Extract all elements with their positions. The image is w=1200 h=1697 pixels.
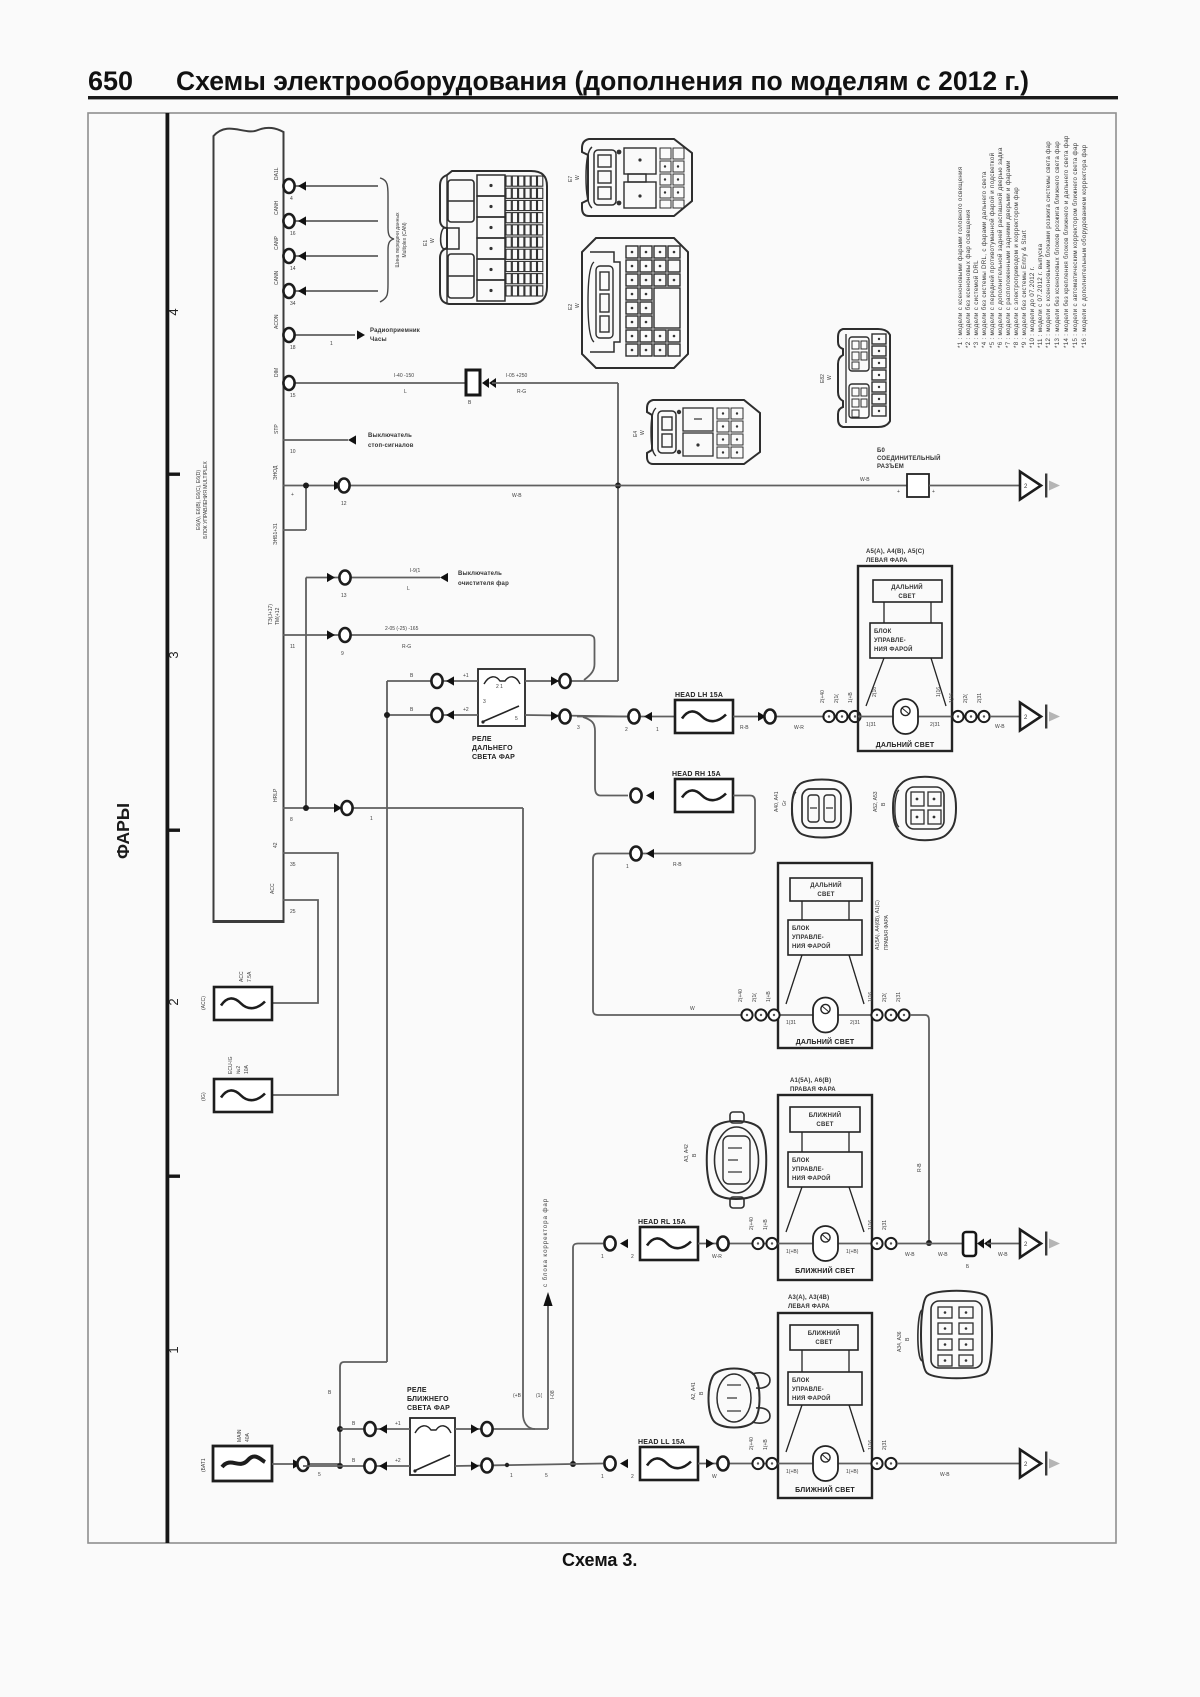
svg-text:*12 : модели с ксеноновыми бло: *12 : модели с ксеноновыми блоками розжи… xyxy=(1045,141,1052,348)
wire xyxy=(283,255,378,257)
connector xyxy=(364,1459,375,1473)
svg-text:HEAD LH 15A: HEAD LH 15A xyxy=(675,692,723,699)
svg-text:1(16: 1(16 xyxy=(949,693,955,703)
svg-text:УПРАВЛЕ-: УПРАВЛЕ- xyxy=(792,1387,824,1393)
svg-text:2: 2 xyxy=(631,1474,634,1480)
svg-text:7.5A: 7.5A xyxy=(247,971,253,982)
svg-text:CANN: CANN xyxy=(274,270,280,285)
junction xyxy=(615,483,621,489)
svg-text:Часы: Часы xyxy=(370,337,387,343)
svg-text:СВЕТ: СВЕТ xyxy=(898,594,915,600)
wire xyxy=(455,1464,572,1466)
wire xyxy=(283,485,907,487)
connector B xyxy=(466,370,480,395)
svg-text:(+B: (+B xyxy=(513,1393,522,1399)
svg-text:W: W xyxy=(430,238,436,243)
svg-text:БЛИЖНИЙ: БЛИЖНИЙ xyxy=(808,1329,840,1337)
connector xyxy=(364,1422,375,1436)
svg-text:А3(А), А3(4В): А3(А), А3(4В) xyxy=(788,1295,829,1301)
svg-text:2: 2 xyxy=(166,998,181,1005)
wire xyxy=(272,853,338,1095)
wire xyxy=(306,577,440,579)
page header xyxy=(88,66,1118,99)
connector xyxy=(898,1009,909,1020)
svg-text:ФАРЫ: ФАРЫ xyxy=(113,803,133,859)
svg-text:9: 9 xyxy=(341,651,344,657)
svg-text:1: 1 xyxy=(370,816,373,822)
connector arrow xyxy=(334,481,342,490)
control unit block (БЛОК УПРАВЛЕНИЯ MULTIPLEX) xyxy=(196,128,284,923)
wire xyxy=(380,178,394,302)
wire xyxy=(573,1244,603,1465)
svg-text:БЛОК: БЛОК xyxy=(792,1158,810,1164)
svg-text:R-B: R-B xyxy=(673,862,682,868)
svg-text:HEAD RL 15A: HEAD RL 15A xyxy=(638,1219,686,1226)
svg-text:БЛОК: БЛОК xyxy=(792,926,810,932)
svg-text:5: 5 xyxy=(515,716,518,722)
connector arrow xyxy=(551,711,559,720)
connector arrow xyxy=(471,1424,479,1433)
DIM wire with connector B xyxy=(283,370,621,681)
svg-text:1: 1 xyxy=(601,1474,604,1480)
connector xyxy=(604,1237,615,1251)
svg-text:5: 5 xyxy=(545,1473,548,1479)
connector arrow xyxy=(334,803,342,812)
svg-text:W: W xyxy=(640,430,646,435)
thick section divider xyxy=(166,113,170,1543)
svg-text:ЛЕВАЯ ФАРА: ЛЕВАЯ ФАРА xyxy=(788,1304,830,1310)
svg-text:А34, А36: А34, А36 xyxy=(897,1331,903,1352)
wire xyxy=(577,716,674,718)
svg-text:А40, А41: А40, А41 xyxy=(774,791,780,812)
svg-text:*6 : модели с дополнительной з: *6 : модели с дополнительной задней расп… xyxy=(997,147,1004,348)
svg-text:1(+B): 1(+B) xyxy=(786,1469,799,1475)
svg-text:*13 : модели без ксеноновых бл: *13 : модели без ксеноновых блоков розжи… xyxy=(1054,141,1061,348)
connector E82 xyxy=(820,329,890,427)
connector xyxy=(717,1457,728,1471)
terminal 42 to ECU-IG fuse xyxy=(272,842,338,1095)
svg-text:*4 : модели без системы DRL, с: *4 : модели без системы DRL, с фарами да… xyxy=(981,171,988,348)
wire xyxy=(387,714,478,716)
svg-text:R-G: R-G xyxy=(517,389,526,395)
connector xyxy=(431,708,442,722)
connector xyxy=(755,1009,766,1020)
connector xyxy=(431,674,442,688)
connector xyxy=(766,1238,777,1249)
ECU-IG fuse 10A xyxy=(201,1056,272,1112)
block terminals: CAN group xyxy=(283,186,378,335)
svg-text:*5 : модели с передней противо: *5 : модели с передней противотуманной ф… xyxy=(989,152,996,348)
wire xyxy=(484,677,520,684)
wire xyxy=(305,486,307,531)
svg-text:1(16: 1(16 xyxy=(868,992,874,1002)
svg-text:ПРАВАЯ ФАРА: ПРАВАЯ ФАРА xyxy=(790,1087,836,1093)
wire xyxy=(272,1463,340,1465)
svg-text:СВЕТ: СВЕТ xyxy=(815,1340,832,1346)
wire xyxy=(305,578,307,809)
connector arrow xyxy=(646,791,654,800)
svg-text:Gr: Gr xyxy=(782,800,788,806)
connector xyxy=(978,711,989,722)
svg-text:2-05 (-25) -165: 2-05 (-25) -165 xyxy=(385,626,419,632)
svg-text:1: 1 xyxy=(601,1254,604,1260)
svg-text:W: W xyxy=(712,1474,717,1480)
diagram outer frame xyxy=(88,113,1116,1543)
wire xyxy=(522,808,524,1414)
svg-text:2(31: 2(31 xyxy=(930,722,940,728)
wire xyxy=(283,529,306,531)
svg-text:ЭНОД: ЭНОД xyxy=(273,465,279,480)
svg-text:2(+40: 2(+40 xyxy=(749,1437,755,1450)
svg-text:РЕЛЕ: РЕЛЕ xyxy=(407,1387,427,1394)
connector arrow xyxy=(327,630,335,639)
left headlamp low-beam unit xyxy=(778,1295,872,1498)
svg-text:650: 650 xyxy=(88,66,133,96)
wire xyxy=(984,1239,991,1249)
svg-text:R-G: R-G xyxy=(402,644,411,650)
svg-text:ACC: ACC xyxy=(270,883,276,894)
svg-text:А5(А), А4(В), А5(С): А5(А), А4(В), А5(С) xyxy=(866,549,924,555)
svg-text:HEAD RH 15A: HEAD RH 15A xyxy=(672,771,721,778)
svg-text:2: 2 xyxy=(631,1254,634,1260)
connector xyxy=(283,284,294,298)
connector xyxy=(283,376,294,390)
svg-text:ДАЛЬНИЙ СВЕТ: ДАЛЬНИЙ СВЕТ xyxy=(796,1037,855,1046)
connector E2 xyxy=(568,238,688,368)
connector arrow xyxy=(758,712,766,721)
ground xyxy=(1020,703,1060,731)
svg-text:*10 : модели до 07.2012 г.: *10 : модели до 07.2012 г. xyxy=(1029,266,1036,348)
connector B xyxy=(963,1232,976,1256)
svg-text:(1(: (1( xyxy=(536,1393,542,1399)
connector xyxy=(297,1457,308,1471)
svg-text:Б0: Б0 xyxy=(877,448,886,454)
svg-text:I-40 -150: I-40 -150 xyxy=(394,373,414,379)
wire xyxy=(617,383,619,681)
svg-text:8: 8 xyxy=(290,817,293,823)
wire xyxy=(525,715,627,717)
svg-text:Multiplex (CAN): Multiplex (CAN) xyxy=(402,222,408,257)
svg-text:ACON: ACON xyxy=(274,314,280,329)
svg-text:3: 3 xyxy=(166,651,181,658)
junction xyxy=(303,483,309,489)
wire xyxy=(593,796,755,1016)
svg-text:Е6(А), Е6(В), Е6(С), Е6(D): Е6(А), Е6(В), Е6(С), Е6(D) xyxy=(196,470,202,530)
svg-text:+: + xyxy=(897,489,900,495)
svg-text:СОЕДИНИТЕЛЬНЫЙ: СОЕДИНИТЕЛЬНЫЙ xyxy=(877,454,941,462)
round connector A34 A36 xyxy=(897,1291,992,1379)
wire xyxy=(414,1455,450,1471)
svg-text:10: 10 xyxy=(290,449,296,455)
svg-text:W: W xyxy=(690,1006,695,1012)
ground xyxy=(1020,472,1060,500)
connector xyxy=(283,328,294,342)
svg-text:L: L xyxy=(407,586,410,592)
right high beam connectors and wire down xyxy=(738,989,932,1246)
wire xyxy=(584,635,595,680)
connector xyxy=(339,571,350,585)
svg-text:*7 : модели с расположенными з: *7 : модели с расположенными задними две… xyxy=(1005,160,1012,348)
svg-text:очистителя фар: очистителя фар xyxy=(458,580,509,587)
svg-text:УПРАВЛЕ-: УПРАВЛЕ- xyxy=(874,638,906,644)
svg-text:4: 4 xyxy=(166,308,181,315)
svg-text:W-B: W-B xyxy=(938,1252,948,1258)
connector xyxy=(339,628,350,642)
svg-text:CANP: CANP xyxy=(274,235,280,250)
middle column of 6 cells xyxy=(477,175,505,301)
svg-text:DA1L: DA1L xyxy=(274,167,280,180)
HEAD LH fuse and wire to left headlamp xyxy=(577,690,861,733)
svg-text:2(2(: 2(2( xyxy=(963,694,969,703)
svg-text:1(+B): 1(+B) xyxy=(786,1249,799,1255)
right low beam: to ground xyxy=(868,1220,1060,1270)
svg-text:40A: 40A xyxy=(245,1432,251,1442)
wire xyxy=(525,680,618,682)
junction xyxy=(337,1426,343,1432)
svg-text:W: W xyxy=(575,175,581,180)
ground xyxy=(1020,1450,1060,1478)
svg-text:*11 : модели с 07.2012 г. выпу: *11 : модели с 07.2012 г. выпуска xyxy=(1037,243,1044,348)
section ticks xyxy=(169,473,180,476)
connector xyxy=(849,711,860,722)
connector arrow xyxy=(644,712,652,721)
right headlamp high-beam unit xyxy=(778,863,890,1048)
svg-text:5: 5 xyxy=(318,1472,321,1478)
svg-text:W-B: W-B xyxy=(995,724,1005,730)
svg-text:№2: №2 xyxy=(236,1066,242,1074)
svg-text:18: 18 xyxy=(290,345,296,351)
wire xyxy=(415,1426,451,1433)
svg-text:с блока корректора фар: с блока корректора фар xyxy=(542,1198,549,1287)
connector xyxy=(283,214,294,228)
svg-text:W-B: W-B xyxy=(860,477,870,483)
svg-text:+2: +2 xyxy=(463,707,469,713)
connector arrow xyxy=(293,1459,301,1468)
svg-text:2 1: 2 1 xyxy=(496,684,503,690)
svg-text:УПРАВЛЕ-: УПРАВЛЕ- xyxy=(792,1167,824,1173)
fuse HEAD RL 15A xyxy=(640,1227,698,1260)
svg-text:I-05 +250: I-05 +250 xyxy=(506,373,527,379)
svg-text:W-B: W-B xyxy=(512,493,522,499)
svg-text:А1(5А), А6(В): А1(5А), А6(В) xyxy=(790,1078,831,1084)
svg-text:ПРАВАЯ ФАРА: ПРАВАЯ ФАРА xyxy=(884,915,890,950)
connector arrow xyxy=(551,676,559,685)
svg-text:R-B: R-B xyxy=(740,725,749,731)
connector xyxy=(559,710,570,724)
fuse ECU-IG No2 10A xyxy=(214,1079,272,1112)
svg-text:34: 34 xyxy=(290,301,296,307)
svg-text:10A: 10A xyxy=(244,1064,250,1074)
svg-text:ДАЛЬНИЙ СВЕТ: ДАЛЬНИЙ СВЕТ xyxy=(876,740,935,749)
junction xyxy=(303,805,309,811)
svg-text:2(2(: 2(2( xyxy=(882,993,888,1002)
connector arrow xyxy=(357,330,365,339)
svg-text:HRLP: HRLP xyxy=(273,788,279,802)
connector E4 xyxy=(633,400,760,464)
svg-text:стоп-сигналов: стоп-сигналов xyxy=(368,443,414,449)
relay contact xyxy=(413,1469,416,1472)
STP terminal xyxy=(274,424,414,455)
wire xyxy=(387,680,478,682)
round connector A3 A42 xyxy=(684,1112,766,1208)
svg-text:2(1(: 2(1( xyxy=(752,993,758,1002)
svg-text:А1(5А), А4(6В), А1(С): А1(5А), А4(6В), А1(С) xyxy=(875,900,881,950)
connector arrow xyxy=(706,1459,714,1468)
junction xyxy=(505,1463,509,1467)
connector xyxy=(481,1422,492,1436)
svg-text:*1 : модели с ксеноновыми фара: *1 : модели с ксеноновыми фарами головно… xyxy=(957,167,964,349)
svg-text:*15 : модели с автоматическим: *15 : модели с автоматическим корректоро… xyxy=(1072,142,1079,348)
connector xyxy=(630,789,641,803)
connector xyxy=(766,1458,777,1469)
terminal ACC to ACC fuse xyxy=(270,883,318,1003)
svg-text:+: + xyxy=(932,489,935,495)
svg-text:БЛИЖНЕГО: БЛИЖНЕГО xyxy=(407,1396,449,1403)
fuse HEAD LH 15A xyxy=(675,700,733,733)
svg-text:НИЯ ФАРОЙ: НИЯ ФАРОЙ xyxy=(792,1174,831,1182)
wire xyxy=(283,220,378,222)
connector xyxy=(752,1458,763,1469)
svg-text:2(1(: 2(1( xyxy=(834,694,840,703)
wire xyxy=(990,716,1019,718)
svg-text:L: L xyxy=(404,389,407,395)
svg-text:2(16: 2(16 xyxy=(872,687,878,697)
connector arrow xyxy=(706,1239,714,1248)
ЭНОД wire (W-B to ground) xyxy=(273,448,1060,545)
wire xyxy=(482,706,519,722)
TMI terminal (R-G wire to relay coil) xyxy=(268,604,595,680)
svg-text:2(31: 2(31 xyxy=(850,1020,860,1026)
svg-text:А2, А41: А2, А41 xyxy=(691,1382,697,1400)
connector xyxy=(283,179,294,193)
wire xyxy=(698,1243,778,1245)
svg-text:+1: +1 xyxy=(395,1421,401,1427)
junction xyxy=(337,1463,343,1469)
svg-text:ДАЛЬНИЙ: ДАЛЬНИЙ xyxy=(810,881,842,889)
junction xyxy=(926,1240,932,1246)
svg-text:Радиоприемник: Радиоприемник xyxy=(370,328,420,334)
left headlamp high-beam unit xyxy=(858,549,952,751)
svg-text:1: 1 xyxy=(656,727,659,733)
wire xyxy=(283,185,378,187)
svg-text:DIM: DIM xyxy=(274,368,280,377)
svg-text:35: 35 xyxy=(290,862,296,868)
svg-text:2(31: 2(31 xyxy=(882,1440,888,1450)
connector xyxy=(604,1457,615,1471)
connector arrow xyxy=(620,1239,628,1248)
svg-text:НИЯ ФАРОЙ: НИЯ ФАРОЙ xyxy=(792,1394,831,1402)
svg-text:Схема 3.: Схема 3. xyxy=(562,1550,637,1570)
svg-text:3: 3 xyxy=(577,725,580,731)
svg-text:БЛИЖНИЙ: БЛИЖНИЙ xyxy=(809,1111,841,1119)
svg-text:1: 1 xyxy=(166,1346,181,1353)
svg-text:1(+B: 1(+B xyxy=(763,1439,769,1450)
svg-text:НИЯ ФАРОЙ: НИЯ ФАРОЙ xyxy=(792,942,831,950)
wire xyxy=(283,290,378,292)
fuse MAIN 40A xyxy=(213,1446,272,1481)
svg-text:1(+B): 1(+B) xyxy=(846,1469,859,1475)
svg-text:СВЕТА ФАР: СВЕТА ФАР xyxy=(472,754,515,761)
svg-text:2: 2 xyxy=(625,727,628,733)
relay 2: РЕЛЕ БЛИЖНЕГО СВЕТА ФАР xyxy=(303,1362,572,1479)
svg-text:*9 : модели без системы Entry: *9 : модели без системы Entry & Start xyxy=(1021,230,1028,348)
svg-text:Е82: Е82 xyxy=(820,374,826,383)
connector B0 xyxy=(907,474,929,497)
svg-text:W-B: W-B xyxy=(905,1252,915,1258)
connector xyxy=(481,1459,492,1473)
svg-text:HEAD LL 15A: HEAD LL 15A xyxy=(638,1439,685,1446)
fuse ACC 7.5A xyxy=(214,987,272,1020)
svg-text:*16 : модели с дополнительным: *16 : модели с дополнительным оборудован… xyxy=(1081,144,1088,348)
svg-text:+2: +2 xyxy=(395,1458,401,1464)
connector xyxy=(965,711,976,722)
HRLP vertical joins relay2 coil / corrector branch xyxy=(523,1198,556,1429)
svg-text:ECU-IG: ECU-IG xyxy=(228,1056,234,1074)
svg-text:Е4: Е4 xyxy=(633,431,639,437)
svg-text:*14 : модели без крепления бло: *14 : модели без крепления блоков ближне… xyxy=(1063,135,1070,348)
HEAD RL fuse and right headlamp low-beam wire xyxy=(601,1217,778,1260)
svg-text:А52, А53: А52, А53 xyxy=(873,791,879,812)
J5 (washer switch) terminal xyxy=(306,568,509,808)
svg-text:W: W xyxy=(575,303,581,308)
svg-text:1(+B: 1(+B xyxy=(766,991,772,1002)
round connector A2 A41 xyxy=(691,1369,770,1428)
connector xyxy=(885,1009,896,1020)
svg-text:STP: STP xyxy=(274,424,280,434)
connector xyxy=(871,1458,882,1469)
svg-text:4: 4 xyxy=(290,196,293,202)
wire xyxy=(222,1457,265,1467)
svg-text:I-08: I-08 xyxy=(550,1390,556,1399)
dense right grid xyxy=(506,176,543,296)
svg-text:Шина передачи данных: Шина передачи данных xyxy=(395,212,401,267)
svg-text:2(+40: 2(+40 xyxy=(749,1217,755,1230)
svg-text:Е2: Е2 xyxy=(568,304,574,310)
wire xyxy=(897,1463,1019,1465)
wire xyxy=(910,1015,929,1243)
relay R2 box xyxy=(410,1418,455,1475)
svg-text:ТЭ(J+17): ТЭ(J+17) xyxy=(268,604,274,625)
wire xyxy=(543,1292,552,1306)
HEAD RL fuse feed vertical xyxy=(570,1244,603,1468)
wire xyxy=(547,1300,549,1429)
round connector A40 A41 xyxy=(774,780,851,838)
wire xyxy=(455,1428,548,1430)
svg-text:ACC: ACC xyxy=(239,971,245,982)
connector xyxy=(768,1009,779,1020)
connector xyxy=(630,847,641,861)
svg-text:Е1: Е1 xyxy=(423,240,429,246)
wire xyxy=(340,1362,387,1466)
svg-text:ТМ(+12: ТМ(+12 xyxy=(275,607,281,625)
svg-text:БЛОК УПРАВЛЕНИЯ MULTIPLEX: БЛОК УПРАВЛЕНИЯ MULTIPLEX xyxy=(203,461,209,539)
svg-text:W-B: W-B xyxy=(940,1472,950,1478)
connector xyxy=(341,801,352,815)
HEAD LL fuse and left low-beam feed xyxy=(572,1437,778,1480)
svg-text:2(31: 2(31 xyxy=(977,693,983,703)
wire xyxy=(733,716,858,718)
wire xyxy=(492,382,618,384)
wire xyxy=(272,900,318,1003)
connector xyxy=(559,674,570,688)
svg-text:СВЕТ: СВЕТ xyxy=(817,892,834,898)
svg-text:БЛИЖНИЙ СВЕТ: БЛИЖНИЙ СВЕТ xyxy=(795,1485,855,1494)
connector arrow xyxy=(327,573,335,582)
connector xyxy=(717,1237,728,1251)
connector xyxy=(628,710,639,724)
svg-text:1(+B: 1(+B xyxy=(848,692,854,703)
svg-text:ДАЛЬНИЙ: ДАЛЬНИЙ xyxy=(891,583,923,591)
